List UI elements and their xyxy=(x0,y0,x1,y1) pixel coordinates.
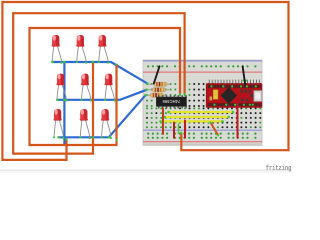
usb connector xyxy=(254,91,262,102)
resistor R3 xyxy=(145,93,167,97)
ic U1 74HC595 xyxy=(156,95,187,108)
red jumper J2 xyxy=(184,121,186,138)
resistor R1 xyxy=(149,82,171,86)
yellow jumper Y1 xyxy=(169,111,234,113)
body holes top half (rows a-c) xyxy=(146,83,148,85)
blue row wire L1 xyxy=(53,62,148,84)
LED D1 xyxy=(51,35,63,64)
black wire W1 xyxy=(154,66,160,83)
LED D4 xyxy=(56,74,68,102)
breadboard rail lines xyxy=(143,60,262,62)
node dots xyxy=(51,61,54,64)
orange wire B (middle loop, column 2) xyxy=(13,13,184,153)
rail holes xyxy=(147,65,149,67)
yellow jumper Y3 xyxy=(161,120,223,122)
body holes rows d-e xyxy=(146,100,148,102)
LED D7 xyxy=(53,109,65,139)
orange wire A (outer loop) xyxy=(2,2,288,160)
orange jumper J6 xyxy=(211,123,219,135)
mcu chip (diamond) xyxy=(221,87,237,103)
yellow jumper Y2 xyxy=(165,116,229,118)
body holes bottom half (rows f-j) xyxy=(146,107,148,109)
red jumper J3 xyxy=(237,104,239,138)
dark red jumper J4 xyxy=(162,108,164,133)
LED D8 xyxy=(79,109,90,139)
small passives xyxy=(241,90,243,93)
blue column wire V1 xyxy=(63,62,65,144)
green jumper J5 xyxy=(178,124,180,133)
microcontroller board U2 xyxy=(206,80,262,108)
blue row wire L3 xyxy=(59,95,146,137)
faint page divider xyxy=(0,170,292,171)
blue row wire L2 xyxy=(58,90,147,100)
LED D2 xyxy=(76,35,87,64)
black wire W2 xyxy=(243,66,246,84)
svg-text:74HC595: 74HC595 xyxy=(162,99,180,104)
resistor R2 xyxy=(147,88,169,92)
LED D5 xyxy=(80,74,92,102)
LED D6 xyxy=(104,74,116,102)
orange wire C (inner loop, column 3) xyxy=(30,28,181,145)
LED D3 xyxy=(98,35,109,64)
red jumper J1 xyxy=(173,123,175,138)
svg-text:fritzing: fritzing xyxy=(266,165,292,173)
LED D9 xyxy=(101,109,113,139)
board pin legs above edge xyxy=(208,80,211,84)
crystal xyxy=(213,90,218,100)
breadboard body xyxy=(143,60,262,145)
